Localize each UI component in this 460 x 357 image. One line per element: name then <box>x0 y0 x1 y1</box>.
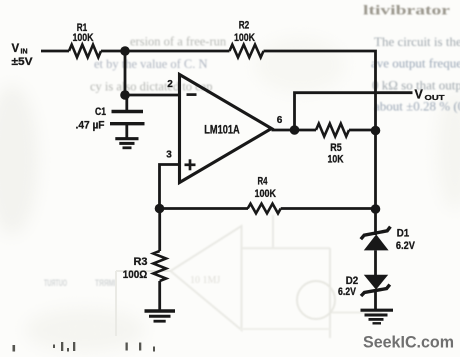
wire: R5 to node C <box>349 129 376 132</box>
wire: R4 to node D <box>281 207 376 210</box>
wire: output node up and right to VOUT <box>295 93 413 130</box>
svg-text:LM101A: LM101A <box>204 123 240 137</box>
svg-text:100K: 100K <box>234 32 255 44</box>
wire: R3 to ground <box>158 281 161 310</box>
svg-text:.47 µF: .47 µF <box>76 120 105 132</box>
R4 value label <box>255 175 277 200</box>
svg-text:2: 2 <box>167 79 173 90</box>
D1 value label <box>396 228 416 252</box>
faint bottom cut-off text fragments <box>13 342 156 352</box>
svg-text:ltivibrator: ltivibrator <box>363 4 450 19</box>
junction node C (R5 right) <box>371 126 381 136</box>
svg-text:100K: 100K <box>73 32 94 44</box>
wire: node B to op-amp pin 2 <box>125 94 179 97</box>
wire: node E to R4 <box>160 207 249 210</box>
resistor R2 <box>230 45 264 58</box>
D2 value label <box>338 275 358 298</box>
wire: node A down to node B <box>124 51 127 95</box>
wire: op-amp pin 3 to corner and down <box>160 165 180 209</box>
resistor R3 <box>153 251 166 281</box>
svg-text:6: 6 <box>277 115 283 126</box>
svg-text:IN: IN <box>21 49 28 56</box>
wire: pin 6 to output node <box>272 129 295 132</box>
faint bleedthrough figure: mirrored op-amp triangle <box>171 215 383 338</box>
junction node E (pin 3 / R3 / R4) <box>155 204 165 214</box>
svg-text:D1: D1 <box>397 228 410 240</box>
svg-text:10 1MJ: 10 1MJ <box>190 275 220 286</box>
svg-text:6.2V: 6.2V <box>396 240 416 252</box>
wire: node C down to node D <box>374 130 377 209</box>
svg-text:100K: 100K <box>255 188 277 200</box>
zener diode D1 <box>361 227 391 276</box>
wire: VIN input segment <box>41 50 69 53</box>
svg-text:et by the value of C. N: et by the value of C. N <box>94 57 208 71</box>
svg-text:TЯЯMI: TЯЯMI <box>95 278 116 288</box>
capacitor C1 <box>110 112 145 138</box>
svg-text:TUЯTUO: TUЯTUO <box>44 278 67 288</box>
resistor R4 <box>248 204 281 214</box>
R2 value label <box>234 20 255 45</box>
C1 value label <box>76 106 107 132</box>
wire: R2 to top-right corner, down node line <box>264 51 376 131</box>
wire: node B down to C1 <box>125 95 128 111</box>
junction node D (R4 right / D1) <box>371 204 381 214</box>
svg-text:OUT: OUT <box>425 93 446 102</box>
svg-text:The circuit is the o: The circuit is the o <box>374 34 460 49</box>
R3 value label <box>123 256 148 281</box>
svg-text:3: 3 <box>166 150 172 161</box>
svg-text:R2: R2 <box>239 20 250 32</box>
ground (R3) <box>145 311 176 321</box>
node VIN label <box>12 43 34 68</box>
svg-text:D2: D2 <box>346 275 359 287</box>
junction node A <box>120 46 130 56</box>
svg-text:C1: C1 <box>95 106 106 118</box>
svg-text:SeekIC.com: SeekIC.com <box>363 333 454 352</box>
wire: node A to R2 <box>125 50 230 53</box>
wire: R1 to node A <box>101 50 125 53</box>
junction: output node at pin 6 <box>290 125 300 135</box>
svg-text:R4: R4 <box>258 175 268 187</box>
faint bleedthrough text, right column <box>363 4 460 114</box>
svg-text:V: V <box>415 88 424 102</box>
svg-text:100Ω: 100Ω <box>123 269 148 281</box>
wire: node E down to R3 <box>158 209 161 252</box>
R5 value label <box>328 142 344 166</box>
ground (C1) <box>115 139 138 148</box>
faint bleedthrough text, left column <box>90 35 227 94</box>
svg-text:R5: R5 <box>330 142 342 154</box>
svg-text:±5V: ±5V <box>12 56 34 68</box>
R1 value label <box>73 22 94 44</box>
resistor R1 <box>69 45 101 58</box>
node VOUT label <box>415 88 446 102</box>
ground (D2) <box>361 310 394 323</box>
svg-text:10K: 10K <box>328 154 344 166</box>
faint mirrored labels bleedthrough <box>44 278 116 288</box>
svg-text:ersion of a free-run: ersion of a free-run <box>130 35 227 49</box>
wire: node D down to D1 <box>374 209 377 235</box>
wire: output node to R5 <box>295 129 317 132</box>
op-amp U1 LM101A <box>180 75 272 183</box>
svg-text:R3: R3 <box>134 256 148 268</box>
svg-text:ave output frequen: ave output frequen <box>371 56 460 71</box>
junction node B <box>120 90 130 100</box>
svg-text:6.2V: 6.2V <box>338 286 357 298</box>
faint mirrored opamp output wires <box>116 270 171 272</box>
zener diode D2 <box>361 275 390 309</box>
resistor R5 <box>316 124 349 137</box>
svg-text:V: V <box>12 43 20 55</box>
